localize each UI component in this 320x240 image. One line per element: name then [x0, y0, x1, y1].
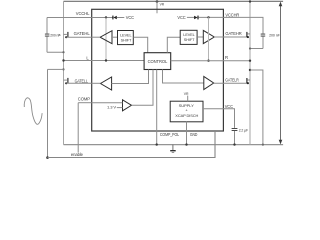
op-amp A2 driver GATELL — [101, 77, 112, 90]
svg-text:CONTROL: CONTROL — [148, 59, 168, 64]
wire control to right lower driver — [163, 70, 204, 84]
node VR tap on rail — [156, 0, 159, 3]
svg-text:SHIFT: SHIFT — [184, 37, 195, 42]
VR output voltage arrow — [279, 2, 283, 145]
block LEVEL SHIFT right U3 — [180, 30, 197, 44]
node L at driver supply — [105, 59, 107, 61]
wire GATELL pin to Q2 gate — [66, 82, 91, 84]
IC package boundary — [92, 9, 224, 131]
wire AC line to left leg midpoint — [48, 68, 64, 70]
capacitor C2 200nF bootstrap right — [261, 34, 281, 49]
wire C1 bottom return to leg — [47, 51, 64, 53]
svg-text:SHIFT: SHIFT — [121, 37, 132, 42]
svg-text:COMP_POL: COMP_POL — [160, 132, 180, 137]
wire A1 out to pin — [92, 36, 100, 38]
wire right AC connection — [250, 70, 263, 145]
svg-text:COMP: COMP — [78, 97, 90, 102]
wire COMP internal to comparator — [92, 102, 123, 104]
wire control to COMP_POL pin — [156, 70, 158, 145]
wire level shift left to control — [133, 37, 147, 52]
transistor Q3 high-side right MOSFET — [247, 32, 250, 38]
svg-text:GATELL: GATELL — [75, 78, 89, 83]
node at R line — [207, 60, 209, 62]
wire control to level shift right — [167, 37, 180, 52]
wire AC line vertical — [47, 69, 49, 157]
AC source sine symbol — [24, 98, 42, 125]
svg-text:GATEHL: GATEHL — [74, 31, 91, 36]
wire right bridge leg — [249, 1, 251, 144]
wire VCC pin to external cap — [203, 109, 235, 128]
block SUPPLY + XCAP DISCH U4 — [170, 101, 203, 122]
wire VCCHR pin to bootstrap cap right — [223, 17, 263, 33]
node AC tap on right leg — [249, 69, 251, 71]
block CONTROL U5 — [144, 53, 171, 70]
node C1 return on leg — [62, 51, 64, 53]
wire top VR rail — [64, 0, 284, 2]
capacitor C3 2.2uF — [232, 128, 249, 144]
svg-text:200 nF: 200 nF — [269, 34, 280, 38]
svg-text:2.2 µF: 2.2 µF — [239, 128, 249, 132]
wire A3 out to GATEHR pin — [214, 36, 247, 38]
diode D1 bootstrap left — [113, 16, 124, 20]
svg-text:enable: enable — [71, 152, 84, 157]
wire enable bottom line — [48, 131, 216, 158]
wire VR stub to supply — [187, 96, 189, 102]
node COMP_POL at rail — [156, 143, 158, 145]
wire A4 out to GATELR pin — [214, 82, 247, 84]
wire L pin line to control — [64, 60, 145, 62]
node VCCHR diode junction — [207, 16, 209, 18]
block LEVEL SHIFT left U2 — [118, 31, 134, 45]
node L at leg — [62, 59, 64, 61]
svg-text:VR: VR — [160, 3, 165, 7]
svg-text:GATEHR: GATEHR — [225, 31, 241, 36]
svg-text:VCC: VCC — [126, 15, 134, 20]
node AC line to bottom wire — [46, 156, 49, 159]
node right leg top — [249, 0, 251, 2]
svg-text:+: + — [185, 108, 188, 113]
node GND at rail — [185, 143, 187, 145]
wire control to A2 input — [112, 70, 149, 84]
svg-text:R: R — [225, 55, 228, 60]
svg-text:GND: GND — [190, 132, 197, 137]
node AC tap on left leg — [62, 68, 64, 70]
wire comparator output to control — [132, 70, 154, 106]
transistor Q4 low-side right MOSFET — [247, 78, 250, 84]
svg-text:VR: VR — [184, 91, 189, 96]
svg-text:L: L — [86, 55, 89, 60]
ground — [170, 145, 176, 153]
svg-text:VCCHL: VCCHL — [76, 11, 90, 16]
wire VR stub into IC — [156, 1, 158, 13]
wire C1 top to VCCHL pin — [47, 17, 92, 19]
diode D2 bootstrap right — [187, 16, 224, 20]
wire high-side right driver supply drop — [208, 17, 210, 60]
wire VCCHL internal to diode junction — [92, 17, 113, 19]
wire A2 out to pin — [92, 82, 101, 84]
op-amp A3 driver GATEHR — [203, 30, 214, 43]
svg-text:1.3 V: 1.3 V — [107, 106, 117, 110]
wire level shift right to driver A3 — [197, 36, 203, 38]
wire COMP to enable net vertical — [77, 103, 79, 153]
node R at leg — [249, 60, 251, 62]
transistor Q1 high-side left MOSFET — [59, 32, 68, 38]
svg-text:XCAP DISCH: XCAP DISCH — [175, 113, 198, 118]
svg-text:VCC: VCC — [225, 104, 233, 109]
wire R line control to right leg — [171, 60, 250, 62]
op-amp A1 driver GATEHL — [100, 31, 112, 44]
svg-text:VCC: VCC — [177, 15, 185, 20]
svg-text:VCCHR: VCCHR — [225, 13, 239, 18]
comparator U6 with 1.3V reference — [107, 100, 132, 111]
wire left bridge leg — [63, 1, 65, 144]
wire C2 return to right leg — [250, 48, 263, 50]
node C3 at rail — [233, 143, 235, 145]
transistor Q2 low-side left MOSFET — [64, 78, 68, 84]
op-amp A4 driver GATELR — [204, 76, 214, 89]
node VCCHL diode junction — [105, 16, 107, 18]
wire bottom rail (AC neutral / DC minus) — [64, 144, 284, 146]
wire A1 in from level shift — [112, 36, 118, 38]
wire GATEHL pin to Q1 gate — [66, 36, 91, 38]
wire COMP pin — [78, 102, 92, 104]
node C2 return on leg — [249, 47, 251, 49]
svg-text:GATELR: GATELR — [225, 78, 238, 83]
wire high-side left driver supply drop — [105, 18, 107, 61]
node right AC at rail — [262, 144, 264, 146]
capacitor C1 200nF bootstrap left — [45, 18, 61, 53]
wire supply to GND pin — [186, 122, 188, 145]
